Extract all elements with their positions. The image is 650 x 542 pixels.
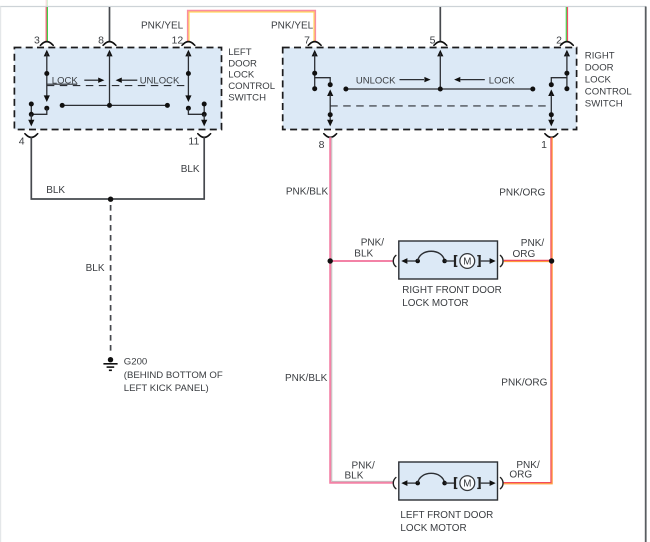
svg-text:SWITCH: SWITCH (585, 99, 623, 110)
svg-text:DOOR: DOOR (585, 62, 614, 73)
svg-text:4: 4 (19, 135, 25, 147)
svg-text:SWITCH: SWITCH (228, 92, 266, 103)
svg-text:12: 12 (172, 34, 184, 46)
svg-text:PNK/: PNK/ (521, 238, 545, 249)
svg-text:2: 2 (556, 34, 562, 46)
svg-text:PNK/ORG: PNK/ORG (499, 187, 545, 198)
svg-text:8: 8 (98, 34, 104, 46)
svg-text:LOCK: LOCK (489, 75, 516, 86)
svg-text:ORG: ORG (513, 249, 536, 260)
svg-text:M: M (463, 257, 471, 268)
svg-text:PNK/BLK: PNK/BLK (285, 373, 328, 384)
svg-text:RIGHT FRONT DOOR: RIGHT FRONT DOOR (402, 285, 501, 296)
svg-text:DOOR: DOOR (228, 58, 257, 69)
svg-text:LEFT: LEFT (228, 47, 252, 58)
svg-text:LOCK MOTOR: LOCK MOTOR (402, 298, 468, 309)
svg-text:PNK/ORG: PNK/ORG (501, 377, 547, 388)
svg-text:5: 5 (430, 34, 436, 46)
svg-text:LOCK: LOCK (585, 74, 612, 85)
svg-text:LEFT KICK PANEL): LEFT KICK PANEL) (124, 383, 209, 394)
svg-text:3: 3 (34, 34, 40, 46)
svg-text:M: M (463, 479, 471, 490)
svg-text:ORG: ORG (509, 469, 532, 480)
svg-text:RIGHT: RIGHT (585, 50, 615, 61)
svg-text:LOCK MOTOR: LOCK MOTOR (400, 523, 466, 534)
svg-text:8: 8 (319, 139, 325, 151)
svg-text:BLK: BLK (86, 263, 105, 274)
svg-text:11: 11 (188, 135, 199, 147)
svg-text:PNK/BLK: PNK/BLK (286, 186, 329, 197)
svg-text:(BEHIND BOTTOM OF: (BEHIND BOTTOM OF (124, 370, 223, 381)
svg-text:PNK/YEL: PNK/YEL (271, 20, 314, 31)
svg-text:BLK: BLK (181, 164, 200, 175)
svg-text:BLK: BLK (46, 185, 65, 196)
svg-text:G200: G200 (124, 356, 147, 367)
svg-text:7: 7 (304, 34, 310, 46)
svg-text:LOCK: LOCK (52, 75, 79, 86)
svg-text:BLK: BLK (345, 471, 364, 482)
svg-text:1: 1 (541, 139, 547, 151)
svg-text:BLK: BLK (354, 248, 373, 259)
svg-text:UNLOCK: UNLOCK (356, 75, 396, 86)
svg-text:UNLOCK: UNLOCK (140, 75, 180, 86)
svg-text:PNK/YEL: PNK/YEL (141, 20, 184, 31)
svg-text:CONTROL: CONTROL (585, 86, 633, 97)
svg-text:LEFT FRONT DOOR: LEFT FRONT DOOR (400, 510, 493, 521)
svg-text:PNK/: PNK/ (361, 238, 385, 249)
svg-text:CONTROL: CONTROL (228, 81, 276, 92)
svg-text:LOCK: LOCK (228, 70, 255, 81)
